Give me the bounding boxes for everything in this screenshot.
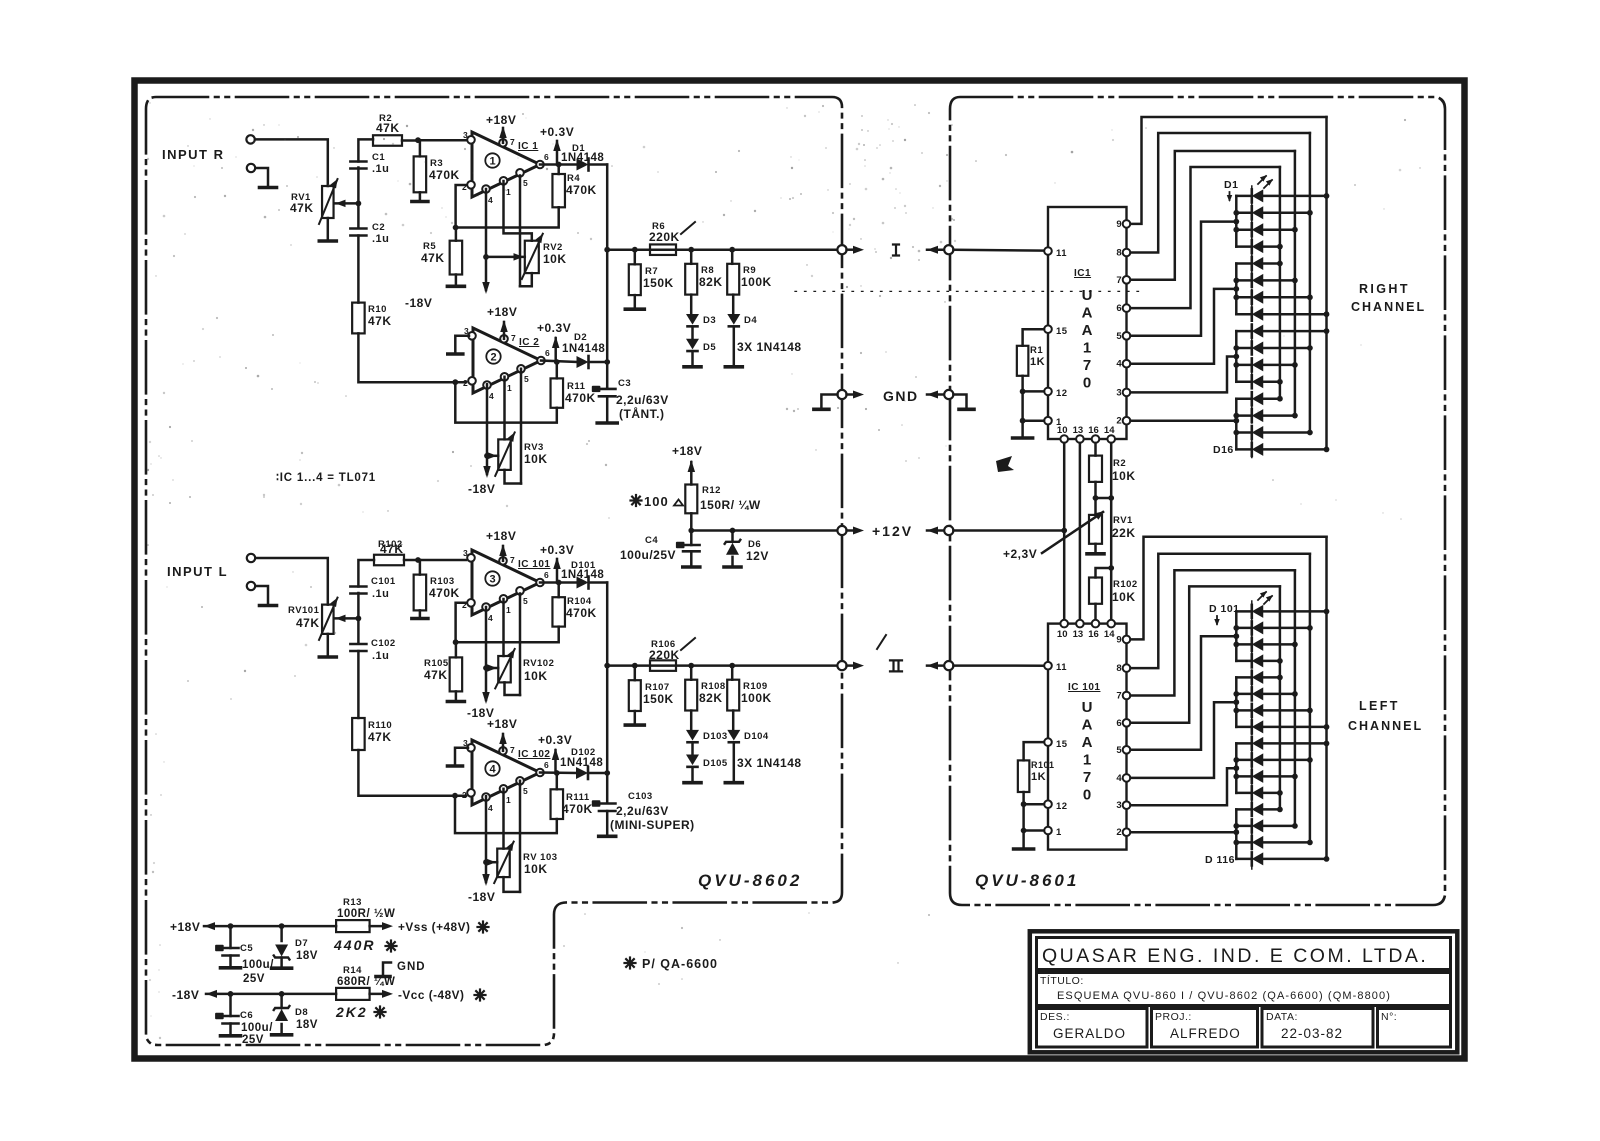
capacitor C2 bbox=[350, 227, 366, 230]
ground D6 bbox=[724, 565, 741, 569]
wire LED cathode stub left y743 bbox=[1236, 742, 1252, 745]
wire LED D102 anode stub bbox=[1263, 627, 1310, 630]
wire LED D8 anode stub bbox=[1263, 313, 1326, 316]
IC4 +18V supply wire bbox=[502, 734, 505, 751]
LED D5 bbox=[1251, 257, 1254, 270]
node R8 tap bbox=[688, 247, 694, 253]
wire pin10 line bbox=[1063, 443, 1066, 620]
node R111 top bbox=[554, 770, 560, 776]
svg-text:QUASAR ENG. IND. E COM. LTDA.: QUASAR ENG. IND. E COM. LTDA. bbox=[1042, 945, 1428, 967]
label I bus roman numeral bbox=[893, 245, 899, 256]
resistor R107 body bbox=[629, 680, 641, 711]
wire LED D11 anode stub bbox=[1263, 364, 1295, 367]
wire LED cathode stub left y776 bbox=[1236, 775, 1252, 778]
input R terminal hot bbox=[246, 135, 254, 143]
wire LED D115 anode stub bbox=[1263, 841, 1310, 844]
potentiometer RV2 body bbox=[525, 241, 539, 273]
I bus entry circle bbox=[944, 245, 953, 254]
node C5 tap bbox=[228, 923, 234, 929]
wire input L hot to RV101 top bbox=[255, 558, 327, 605]
node op-amp1 input bbox=[415, 137, 421, 143]
LED D8 bbox=[1251, 308, 1254, 321]
wire LED cathode stub right y331 bbox=[1236, 330, 1252, 333]
node feed group 3 left bbox=[1233, 765, 1239, 771]
svg-text:7: 7 bbox=[510, 745, 515, 755]
svg-text:470K: 470K bbox=[562, 802, 593, 816]
wire LED cathode stub left y710 bbox=[1236, 709, 1252, 712]
UAA170 right pin 5 circle bbox=[1123, 332, 1131, 340]
LED D6 bbox=[1251, 274, 1254, 287]
svg-text:CHANNEL: CHANNEL bbox=[1348, 719, 1423, 733]
potentiometer RV1 22K body bbox=[1089, 515, 1102, 544]
RV3 wiper wire from pin4 bbox=[487, 455, 498, 458]
IC 102 circled number 4 bbox=[485, 761, 499, 775]
IC 1 circled number 1 bbox=[485, 153, 499, 167]
wire LED D15 anode stub bbox=[1263, 431, 1310, 434]
capacitor C101 bbox=[350, 585, 366, 588]
svg-text:A: A bbox=[1082, 305, 1093, 322]
node RV2 wiper on pin4 line bbox=[483, 254, 489, 260]
IC 101 pin 2 circle bbox=[467, 599, 475, 607]
wire LED D6 anode stub bbox=[1263, 279, 1295, 282]
RV103 wiper arrowhead bbox=[486, 858, 496, 866]
wire D6 ground bbox=[731, 557, 734, 565]
LED D1 bbox=[1251, 189, 1254, 202]
svg-text:D4: D4 bbox=[744, 315, 757, 326]
svg-text:∶IC 1...4 = TL071: ∶IC 1...4 = TL071 bbox=[276, 472, 376, 484]
LED anode column C right bbox=[1294, 151, 1297, 416]
svg-text:2: 2 bbox=[462, 600, 467, 610]
resistor R3 body bbox=[414, 156, 427, 192]
svg-text:18V: 18V bbox=[296, 1019, 318, 1031]
input L terminal hot bbox=[247, 554, 255, 562]
svg-text:22-03-82: 22-03-82 bbox=[1281, 1026, 1343, 1041]
node LED D111 anode bbox=[1292, 774, 1298, 780]
IC 1 pin 2 circle bbox=[467, 181, 475, 189]
GND bus right arrowhead bbox=[927, 391, 938, 399]
svg-text:C3: C3 bbox=[618, 378, 631, 389]
LED D104 bbox=[1251, 654, 1254, 667]
ground input L bbox=[260, 604, 277, 608]
resistor R101 body bbox=[1018, 760, 1030, 792]
node LED D9 anode bbox=[1324, 328, 1330, 334]
wire LED cathode stub left y792 bbox=[1236, 792, 1252, 795]
I bus exit circle bbox=[837, 245, 846, 254]
wire rectifier column left channel bbox=[606, 583, 609, 804]
wire pin 6 loop right bbox=[1131, 167, 1280, 308]
IC4 pin3 ground stub bbox=[455, 748, 468, 764]
LED cathode bus group 3 left bbox=[1235, 743, 1238, 793]
node LED D3 anode bbox=[1292, 227, 1298, 233]
node feed group 2 right bbox=[1233, 286, 1239, 292]
+18V rail wire bbox=[204, 925, 336, 928]
svg-text:100K: 100K bbox=[741, 275, 772, 289]
IC UAA170 left box bbox=[1048, 624, 1127, 850]
+12V wire to pin10 line bbox=[953, 529, 1064, 532]
svg-text:14: 14 bbox=[1104, 629, 1115, 640]
node cathode bus left y644 bbox=[1233, 642, 1239, 648]
svg-text:IC 2: IC 2 bbox=[519, 337, 539, 348]
LED D7 bbox=[1251, 291, 1254, 304]
wire input L gnd stub bbox=[256, 586, 269, 603]
IC 2 pin 4 circle bbox=[483, 381, 491, 389]
IC2 pin3 ground stub bbox=[455, 336, 469, 352]
wire RV1 bottom to ground bbox=[327, 218, 330, 239]
node LED D105 anode bbox=[1277, 675, 1283, 681]
svg-text:15: 15 bbox=[1056, 326, 1068, 337]
resistor R111 body bbox=[551, 789, 564, 819]
node LED D102 anode bbox=[1307, 625, 1313, 631]
-Vcc arrowhead bbox=[382, 990, 393, 998]
wire LED cathode stub left y809 bbox=[1236, 808, 1252, 811]
svg-text:150K: 150K bbox=[643, 692, 674, 706]
+Vss arrow wire bbox=[370, 925, 388, 928]
wire input R gnd stub bbox=[256, 168, 269, 185]
svg-text:4: 4 bbox=[488, 195, 493, 205]
node feed group 4 right bbox=[1233, 418, 1239, 424]
wire LED cathode stub right y246 bbox=[1236, 245, 1252, 248]
node cathode bus right y415 bbox=[1233, 413, 1239, 419]
UAA170 right pin 12 circle bbox=[1044, 388, 1052, 396]
node LED D7 anode bbox=[1307, 294, 1313, 300]
svg-text:470K: 470K bbox=[566, 183, 597, 197]
svg-text:16: 16 bbox=[1088, 425, 1099, 436]
R12 +18V arrowhead bbox=[688, 460, 696, 472]
IC 2 pin 7 circle bbox=[500, 335, 508, 343]
node LED D113 anode bbox=[1277, 807, 1283, 813]
svg-text:10: 10 bbox=[1057, 425, 1068, 436]
potentiometer RV103 body bbox=[497, 849, 510, 878]
svg-text:C5: C5 bbox=[240, 943, 253, 954]
svg-text:U: U bbox=[1082, 287, 1093, 304]
IC 101 pin 7 circle bbox=[499, 557, 507, 565]
svg-text:6: 6 bbox=[544, 760, 549, 770]
wire LED cathode stub right y229 bbox=[1236, 228, 1252, 231]
wire C4 ground bbox=[690, 551, 693, 564]
wire pin 2 feed left bbox=[1131, 831, 1237, 834]
IC 102 pin 2 circle bbox=[467, 789, 475, 797]
svg-text:1: 1 bbox=[1056, 827, 1062, 838]
LED D105 bbox=[1251, 671, 1254, 684]
wire pin 9 loop right bbox=[1131, 117, 1327, 224]
R106 annotation stroke bbox=[681, 638, 695, 650]
svg-text:100u/: 100u/ bbox=[242, 959, 274, 971]
resistor R12 body bbox=[685, 485, 697, 514]
RV1 wiper arrowhead bbox=[336, 200, 346, 208]
wire LED cathode stub left y677 bbox=[1236, 676, 1252, 679]
svg-text:+18V: +18V bbox=[170, 920, 200, 934]
potentiometer RV1 body bbox=[322, 186, 334, 218]
ground R101 bbox=[1014, 847, 1034, 851]
wire C5 ground bbox=[229, 956, 232, 966]
capacitor C3 bbox=[599, 388, 616, 391]
svg-text:440R: 440R bbox=[333, 937, 375, 953]
node D102 output junction bbox=[604, 770, 610, 776]
node LED D5 anode bbox=[1277, 261, 1283, 267]
resistor R104 hang wire bbox=[557, 583, 560, 598]
capacitor C103 bbox=[599, 802, 616, 805]
LED D11 bbox=[1251, 358, 1254, 371]
node cathode bus left y842 bbox=[1233, 840, 1239, 846]
wire C5 hang bbox=[229, 926, 232, 948]
svg-text:D105: D105 bbox=[703, 758, 728, 769]
IC4 pin1 wire to RV103 bbox=[502, 789, 505, 849]
svg-text:82K: 82K bbox=[699, 275, 723, 289]
star after +Vss bbox=[483, 926, 489, 928]
wire pin12 stub left bbox=[1024, 803, 1044, 806]
node LED D109 anode bbox=[1324, 741, 1330, 747]
wire D7 ground bbox=[280, 958, 283, 967]
IC2 +18V arrowhead bbox=[500, 320, 508, 332]
node cathode bus right y280 bbox=[1233, 278, 1239, 284]
svg-text:D104: D104 bbox=[744, 731, 769, 742]
svg-text:ESQUEMA QVU-860 I / QVU-8602 (: ESQUEMA QVU-860 I / QVU-8602 (QA-6600) (… bbox=[1057, 990, 1391, 1002]
wire IC1 output bbox=[540, 163, 577, 166]
LED emission arrows right bbox=[1258, 176, 1266, 184]
LED D13 bbox=[1251, 392, 1254, 405]
node LED D106 anode bbox=[1292, 691, 1298, 697]
IC 101 pin 5 circle bbox=[516, 587, 524, 595]
node D6 tap bbox=[730, 528, 736, 534]
potentiometer RV3 body bbox=[498, 439, 511, 470]
wire I bus to IC1 pin11 bbox=[953, 248, 1044, 251]
wire LED D113 anode stub bbox=[1263, 808, 1280, 811]
wire LED cathode stub left y858 bbox=[1236, 858, 1252, 861]
wire D3 to D5 bbox=[691, 327, 694, 338]
IC 101 pin 1 circle bbox=[500, 595, 508, 603]
svg-text:5: 5 bbox=[524, 374, 529, 384]
UAA170 right bottom pin 13 circle bbox=[1076, 435, 1084, 443]
wire LED cathode stub right y364 bbox=[1236, 364, 1252, 367]
node feed group 3 right bbox=[1233, 354, 1239, 360]
UAA170 left pin 1 circle bbox=[1044, 827, 1052, 835]
wire pin 3 feed left bbox=[1131, 768, 1237, 805]
svg-text:R2: R2 bbox=[1113, 458, 1126, 469]
+12V exit circle bbox=[837, 526, 846, 535]
svg-text:1N4148: 1N4148 bbox=[561, 152, 604, 164]
LED anode column D right bbox=[1279, 167, 1282, 399]
svg-text:10K: 10K bbox=[1112, 590, 1136, 604]
svg-text:3: 3 bbox=[1116, 800, 1121, 811]
wire C102 to R110 bbox=[357, 651, 360, 718]
wire LED D10 anode stub bbox=[1263, 347, 1310, 350]
ground R3 bbox=[412, 200, 428, 204]
node cathode bus right y297 bbox=[1233, 294, 1239, 300]
svg-text:11: 11 bbox=[1056, 248, 1067, 259]
star after 440R bbox=[391, 945, 397, 947]
LED D15 bbox=[1251, 426, 1254, 439]
svg-text:3: 3 bbox=[464, 326, 469, 336]
wire LED D1 anode stub bbox=[1263, 195, 1326, 198]
LED D108 bbox=[1251, 720, 1254, 733]
svg-text:INPUT L: INPUT L bbox=[167, 564, 228, 579]
svg-text:IC1: IC1 bbox=[1074, 268, 1091, 279]
svg-text:LEFT: LEFT bbox=[1359, 699, 1400, 713]
RV3 wiper arrowhead bbox=[487, 452, 497, 460]
svg-text:D 116: D 116 bbox=[1205, 854, 1235, 866]
IC UAA170 right box bbox=[1048, 207, 1127, 439]
wire R2 stub to pin14 line bbox=[1096, 497, 1112, 500]
node LED D12 anode bbox=[1277, 379, 1283, 385]
wire LED cathode stub left y825 bbox=[1236, 825, 1252, 828]
ground GND stub bbox=[376, 975, 390, 979]
node feed group 1 left bbox=[1233, 633, 1239, 639]
II bus exit arrow wire bbox=[847, 664, 859, 667]
wire LED cathode stub left y726 bbox=[1236, 726, 1252, 729]
IC 101 pin 3 circle bbox=[467, 554, 475, 562]
UAA170 right pin 8 circle bbox=[1123, 249, 1131, 257]
svg-text:.1u: .1u bbox=[372, 233, 389, 245]
svg-text:QVU-8602: QVU-8602 bbox=[698, 871, 802, 890]
title block title row box bbox=[1037, 973, 1451, 1006]
svg-text:INPUT R: INPUT R bbox=[162, 147, 225, 162]
IC4 -18V arrowhead bbox=[482, 874, 490, 886]
LED D109 bbox=[1251, 737, 1254, 750]
node R1 pin12 junction bbox=[1020, 389, 1026, 395]
IC3 +0.3V arrow wire bbox=[556, 559, 559, 583]
svg-text:D16: D16 bbox=[1213, 444, 1234, 456]
node op-amp3 input bbox=[415, 557, 421, 563]
ground R5 bbox=[447, 284, 464, 288]
resistor R102 10K body bbox=[1089, 578, 1102, 604]
RV2 wiper wire from pin4 bbox=[486, 256, 525, 259]
node RV3 wiper on pin4 line bbox=[484, 453, 490, 459]
R1 wire from pin 15 bbox=[1023, 329, 1044, 346]
wire R8 hang bbox=[690, 250, 693, 264]
resistor R9 body bbox=[727, 264, 739, 295]
wire LED cathode stub right y280 bbox=[1236, 279, 1252, 282]
ground D8 bbox=[272, 1033, 292, 1037]
svg-text:N°:: N°: bbox=[1381, 1011, 1397, 1023]
svg-text:1N4148: 1N4148 bbox=[560, 757, 603, 769]
wire D8 ground bbox=[280, 1024, 283, 1033]
svg-text:6: 6 bbox=[1116, 303, 1121, 314]
wire R103 hang bbox=[419, 560, 422, 575]
wire LED cathode stub right y381 bbox=[1236, 381, 1252, 384]
node RV1 wiper junction bbox=[356, 201, 362, 207]
inter-board separation dash-dot line bbox=[795, 290, 1146, 292]
node D8 tap bbox=[279, 991, 285, 997]
wire RV101 bottom to ground bbox=[327, 634, 330, 655]
UAA170 left pin 15 circle bbox=[1044, 738, 1052, 746]
node cathode bus right y348 bbox=[1233, 345, 1239, 351]
svg-text:47K: 47K bbox=[368, 730, 392, 744]
node LED D6 anode bbox=[1292, 278, 1298, 284]
IC 2 pin 1 circle bbox=[501, 373, 509, 381]
wire C3 to ground bbox=[606, 396, 609, 420]
ground R1 bbox=[1013, 436, 1033, 440]
svg-text:10K: 10K bbox=[524, 452, 548, 466]
wire pin 8 loop right bbox=[1131, 133, 1310, 253]
wire C2 branch down bbox=[357, 203, 360, 227]
wire LED cathode stub right y314 bbox=[1236, 313, 1252, 316]
wire R110 to IC4 pin2 bbox=[358, 750, 466, 796]
diode D5 bbox=[686, 339, 699, 350]
node C6 tap bbox=[228, 991, 234, 997]
resistor R8 body bbox=[685, 264, 697, 295]
capacitor C4 polarity blob bbox=[676, 542, 685, 548]
svg-text:2: 2 bbox=[462, 790, 467, 800]
ground RV1 bbox=[319, 239, 336, 243]
wire LED D5 anode stub bbox=[1263, 262, 1280, 265]
wire C1 top to R2 bbox=[358, 139, 373, 161]
UAA170 right bottom pin 14 circle bbox=[1107, 435, 1115, 443]
IC1 +18V arrowhead bbox=[499, 126, 507, 138]
UAA170 right pin 6 circle bbox=[1123, 304, 1131, 312]
LED D115 bbox=[1251, 836, 1254, 849]
RV102 pot diagonal bbox=[495, 649, 515, 688]
svg-text:9: 9 bbox=[1116, 219, 1121, 230]
wire C102 branch down bbox=[357, 618, 360, 642]
wire pin 9 loop left bbox=[1131, 537, 1327, 640]
wire pin 2 feed right bbox=[1131, 419, 1237, 422]
wire pin 4 feed left bbox=[1131, 702, 1237, 778]
svg-text:680R/ ¼W: 680R/ ¼W bbox=[337, 976, 395, 988]
svg-text:IC 101: IC 101 bbox=[1068, 682, 1100, 693]
svg-text:C1: C1 bbox=[372, 152, 385, 163]
wire feedback to R105 bbox=[455, 642, 458, 657]
node feed group 4 left bbox=[1233, 829, 1239, 835]
ground C4 bbox=[683, 565, 700, 569]
node R11 top bbox=[554, 359, 560, 365]
+12V entry arrowhead bbox=[927, 527, 938, 535]
node cathode bus left y693 bbox=[1233, 691, 1239, 697]
svg-text:+0.3V: +0.3V bbox=[540, 125, 574, 139]
capacitor C103 polarity blob bbox=[592, 800, 601, 806]
input L terminal ground bbox=[247, 582, 255, 590]
svg-text:DATA:: DATA: bbox=[1266, 1011, 1298, 1023]
wire LED D110 anode stub bbox=[1263, 759, 1310, 762]
svg-text:1N4148: 1N4148 bbox=[562, 343, 605, 355]
star after -Vcc bbox=[480, 994, 486, 996]
svg-text:5: 5 bbox=[1116, 745, 1122, 756]
svg-text:C103: C103 bbox=[628, 791, 653, 802]
svg-text:100u/25V: 100u/25V bbox=[620, 548, 676, 562]
node R9 tap bbox=[729, 247, 735, 253]
IC 2 pin 3 circle bbox=[468, 332, 476, 340]
svg-text:0: 0 bbox=[1083, 787, 1091, 804]
IC 101 pin 4 circle bbox=[482, 603, 490, 611]
GND bus left arrow wire bbox=[847, 393, 859, 396]
LED D14 bbox=[1251, 409, 1254, 422]
resistor R4 hang wire bbox=[557, 165, 560, 175]
II bus entry arrowhead bbox=[927, 662, 938, 670]
svg-text:25V: 25V bbox=[243, 973, 265, 985]
QVU-8601 module dashed outline bbox=[950, 97, 1445, 905]
UAA170 right bottom pin 16 circle bbox=[1092, 435, 1100, 443]
wire LED cathode stub right y195 bbox=[1236, 195, 1252, 198]
svg-text:C102: C102 bbox=[371, 638, 396, 649]
LED array left dashed axis bbox=[1251, 601, 1253, 869]
wire pin 6 loop left bbox=[1131, 586, 1280, 722]
UAA170 right bottom pin 10 circle bbox=[1060, 435, 1068, 443]
capacitor C5 bbox=[223, 947, 239, 950]
svg-text:470K: 470K bbox=[429, 586, 460, 600]
capacitor C5 polarity blob bbox=[215, 945, 224, 951]
resistor R11 body bbox=[551, 378, 564, 407]
wire rectifier column right channel bbox=[606, 165, 609, 389]
IC 1 pin 7 circle bbox=[499, 139, 507, 147]
node LED D115 anode bbox=[1307, 840, 1313, 846]
wire D5 ground bbox=[691, 352, 694, 365]
IC2 pin1 wire to RV3 bbox=[503, 377, 506, 440]
svg-text:D103: D103 bbox=[703, 731, 728, 742]
svg-text:5: 5 bbox=[1116, 331, 1122, 342]
resistor R2 10K body bbox=[1089, 456, 1102, 482]
wire D101 to node bbox=[589, 581, 607, 584]
IC4 +0.3V arrow wire bbox=[554, 750, 557, 773]
resistor R105 body bbox=[450, 657, 463, 691]
